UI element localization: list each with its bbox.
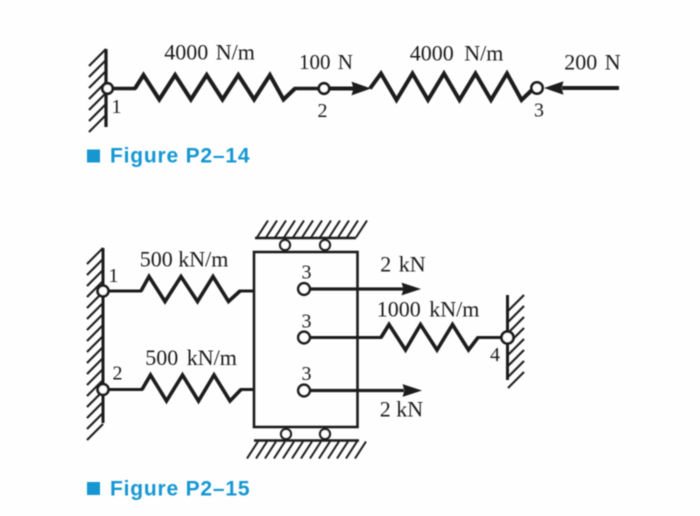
wall support left (P2-15): wall line: [102, 248, 105, 423]
wall support right (P2-15): hatching: [508, 295, 524, 388]
svg-text:4000 N/m: 4000 N/m: [410, 41, 504, 66]
svg-text:3: 3: [534, 100, 544, 122]
svg-text:4000 N/m: 4000 N/m: [164, 40, 255, 65]
wall support left (P2-14): wall line: [104, 49, 107, 127]
svg-text:3: 3: [302, 363, 312, 385]
spring k1 4000 N/m (element 1, nodes 1-2): [135, 75, 295, 100]
svg-text:1: 1: [109, 265, 119, 287]
force arrow 100 N at node 2: [329, 82, 371, 96]
node 3 top circle: [298, 283, 310, 295]
wall support left (P2-15): hatching: [87, 248, 103, 440]
wall support left (P2-14): hatching: [89, 49, 106, 132]
force arrow 2 kN bottom at node 3: [308, 384, 422, 397]
top roller support: line: [255, 237, 356, 240]
svg-text:3: 3: [302, 311, 312, 333]
svg-text:Figure P2–15: Figure P2–15: [110, 478, 250, 501]
node 1 (P2-14): [102, 83, 112, 93]
wall support right (P2-15): wall line: [506, 295, 509, 380]
svg-text:4: 4: [490, 344, 500, 366]
caption square P2-14: [87, 150, 100, 163]
wire spring kB to block: [240, 388, 255, 391]
svg-text:100 N: 100 N: [299, 50, 353, 74]
spring kC 1000 kN/m (block to node 4): [381, 325, 478, 351]
node 3 middle circle: [298, 332, 310, 344]
svg-text:500 kN/m: 500 kN/m: [145, 345, 237, 370]
bottom roller left: [281, 429, 291, 439]
spring k2 4000 N/m (element 2, nodes 2-3): [370, 74, 533, 101]
rigid block rectangle: [254, 252, 358, 427]
wire node1 to spring k1: [107, 87, 136, 90]
wire spring k1 to node 2: [294, 87, 319, 90]
force arrow 2 kN top at node 3: [308, 283, 421, 296]
svg-text:500 kN/m: 500 kN/m: [140, 247, 229, 272]
wire spring kC to node 4: [477, 336, 503, 339]
caption square P2-15: [87, 482, 100, 495]
spring kB 500 kN/m (node 2 to block): [142, 375, 241, 401]
svg-text:2 kN: 2 kN: [380, 252, 426, 277]
svg-text:Figure P2–14: Figure P2–14: [110, 145, 250, 168]
node 3 bottom circle: [298, 385, 310, 397]
node 2 (P2-14): [319, 83, 329, 93]
svg-text:1000 kN/m: 1000 kN/m: [377, 297, 480, 322]
wire node2 to spring kB: [104, 388, 143, 391]
svg-text:3: 3: [302, 262, 312, 284]
spring kA 500 kN/m (node 1 to block): [141, 277, 240, 302]
node 1 (P2-15): [98, 286, 109, 297]
node 2 (P2-15): [98, 384, 109, 395]
top roller support: hatching: [257, 221, 367, 238]
svg-text:2 kN: 2 kN: [380, 397, 424, 422]
svg-text:2: 2: [318, 100, 328, 122]
wire node3 middle to spring kC: [308, 336, 382, 339]
bottom roller right: [320, 429, 330, 439]
wire node1 to spring kA: [104, 290, 142, 293]
bottom roller support: hatching: [247, 442, 366, 459]
node 4: [502, 332, 514, 344]
top roller right: [320, 240, 330, 250]
force arrow 200 N at node 3: [544, 81, 619, 95]
svg-text:200 N: 200 N: [564, 50, 621, 75]
node 3 (P2-14): [531, 82, 542, 93]
svg-text:1: 1: [112, 96, 122, 118]
top roller left: [280, 240, 290, 250]
wire spring kA to block: [239, 290, 255, 293]
bottom roller support: line: [254, 439, 359, 442]
svg-text:2: 2: [113, 363, 123, 385]
